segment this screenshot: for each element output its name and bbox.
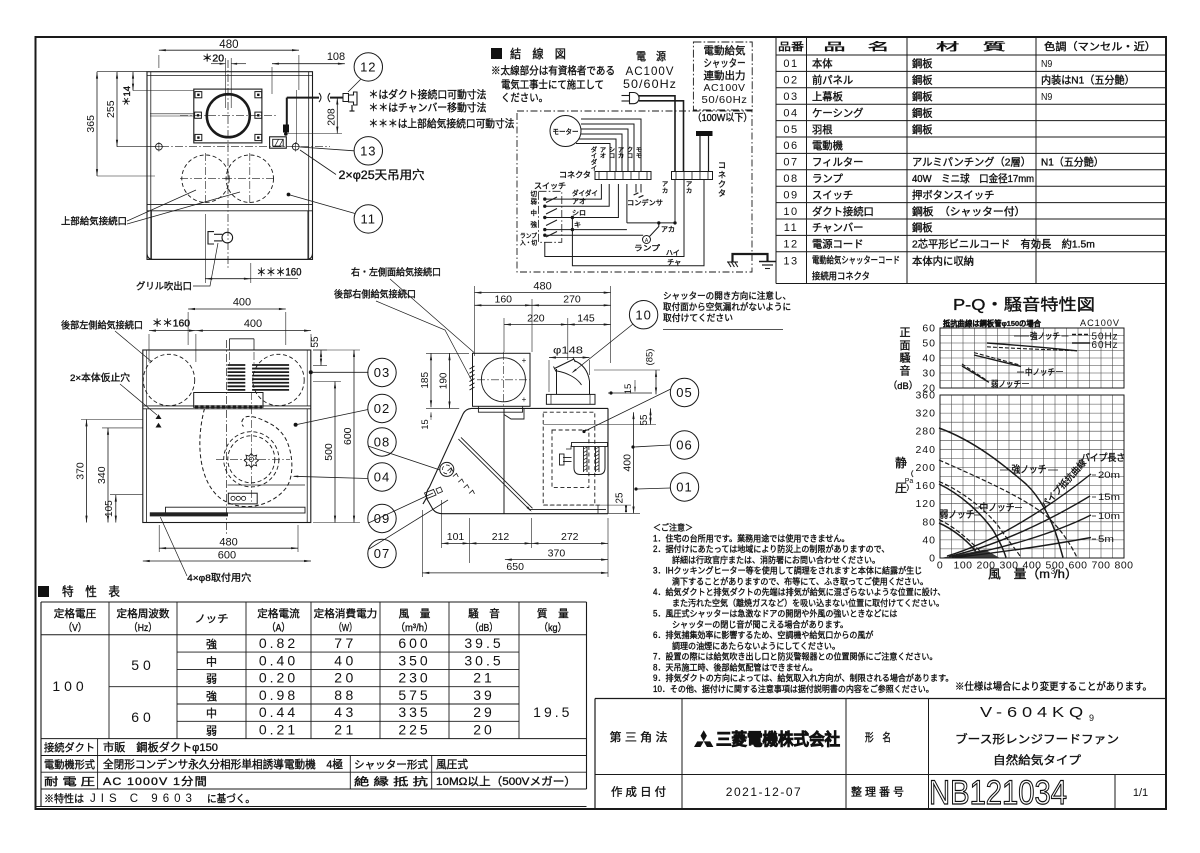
dim 108 [272,63,345,65]
svg-text:(85): (85) [645,349,656,366]
horizontal center line through holes [147,146,330,148]
svg-text:強ノッチ: 強ノッチ [1012,463,1047,476]
svg-text:0.21: 0.21 [259,722,298,738]
svg-text:15m: 15m [1098,492,1120,503]
svg-text:9: 9 [1089,713,1094,723]
side view duct elbow [556,369,558,394]
svg-text:12: 12 [783,239,798,251]
svg-text:N9: N9 [1041,91,1052,103]
svg-text:ください。: ください。 [501,92,548,104]
svg-text:＊＊＊は上部給気接続口可動寸法: ＊＊＊は上部給気接続口可動寸法 [369,117,515,130]
svg-text:272: 272 [561,531,579,543]
front view balloons [368,358,396,386]
side view filter edge (double diagonal) [458,439,530,510]
svg-text:09: 09 [374,511,390,526]
power plug [630,93,640,104]
PQ chart grid [940,395,1124,558]
svg-text:コンデンサ: コンデンサ [627,198,663,207]
svg-text:電動機: 電動機 [812,139,843,152]
svg-text:スイッチ: スイッチ [812,189,853,201]
svg-text:調理の油煙にあたらないようにしてください。: 調理の油煙にあたらないようにしてください。 [672,640,840,651]
svg-text:02: 02 [783,75,798,87]
wire switch row1 daidai [545,184,602,199]
svg-text:＊＊160: ＊＊160 [152,318,190,330]
svg-text:チャ: チャ [667,258,681,266]
wires motor to connector [581,119,641,172]
svg-text:三菱電機株式会社: 三菱電機株式会社 [716,729,840,749]
dim phi148 [548,360,550,392]
svg-text:電源コード: 電源コード [812,238,864,251]
svg-text:700: 700 [1091,560,1110,572]
side view fan housing (dashed) [543,412,595,505]
svg-text:+: + [522,395,527,404]
cord connector 13 [270,137,287,148]
svg-text:質 量: 質 量 [537,607,569,620]
svg-text:AC100V: AC100V [626,64,675,78]
svg-text:1．住宅の台所用です。業務用途では使用できません。: 1．住宅の台所用です。業務用途では使用できません。 [653,532,849,543]
svg-text:中ノッチ: 中ノッチ [980,501,1015,514]
svg-text:05: 05 [783,124,798,136]
svg-text:05: 05 [676,385,692,400]
svg-text:＊14: ＊14 [122,86,133,106]
svg-text:50/60Hz: 50/60Hz [702,94,748,106]
noise curve mid 50Hz [974,353,1019,365]
svg-text:アカ: アカ [661,226,675,234]
shutter output box [693,42,752,110]
svg-text:モ: モ [636,153,642,160]
wire rail hai [545,180,684,257]
svg-text:コ: コ [718,161,726,170]
svg-text:25: 25 [615,492,626,503]
dim 25 [625,505,627,512]
svg-text:強: 強 [206,638,217,651]
svg-text:N1（五分艶）: N1（五分艶） [1041,156,1104,169]
svg-text:370: 370 [75,462,87,480]
svg-text:20: 20 [334,670,357,686]
side view inlet circle [481,358,525,402]
pipe resistance curve 20m [947,474,1091,556]
svg-text:市販 鋼板ダクトφ150: 市販 鋼板ダクトφ150 [103,740,218,754]
svg-text:480: 480 [219,39,238,51]
svg-text:320: 320 [915,408,936,420]
svg-text:コネクタ: コネクタ [559,171,591,180]
svg-text:40: 40 [922,353,936,365]
svg-text:800: 800 [1114,560,1133,572]
svg-text:200: 200 [915,462,936,474]
fan curve weak 50Hz [939,520,987,558]
wire red net horizontal [626,184,628,223]
svg-text:220: 220 [527,312,545,324]
svg-text:N9: N9 [1041,58,1052,70]
fan hub [244,454,258,468]
panel shelf line [228,484,306,486]
svg-text:ランプ: ランプ [520,233,537,240]
pipe resistance curve 15m [949,496,1090,557]
svg-text:（V）: （V） [64,622,87,634]
svg-text:弱ノッチ: 弱ノッチ [991,379,1021,389]
svg-text:0: 0 [929,553,936,565]
front view dim **160 and 400 [148,334,150,362]
switch SW [539,191,562,242]
characteristics table heading [38,586,49,597]
front view dim 370/340/105 left [81,419,143,421]
noise curve strong 50Hz [987,347,1073,351]
wiring diagram heading [491,48,502,59]
balloon 13 [354,137,382,165]
front view center line [226,340,228,535]
side view dims top [474,286,476,356]
svg-text:13: 13 [783,256,798,268]
svg-text:品 名: 品 名 [824,40,890,53]
svg-text:600: 600 [218,550,236,562]
svg-text:絶 縁 抵 抗: 絶 縁 抵 抗 [354,775,429,788]
svg-text:21: 21 [334,722,357,738]
side view chamber hatch [470,366,475,369]
svg-text:600: 600 [342,427,354,445]
upper air inlet knockouts (dashed circles) [182,155,229,202]
bottom strip [166,507,306,513]
svg-text:06: 06 [676,438,692,453]
duct hole (bold circle) [207,94,250,137]
dim 185/190/15 left side view [426,352,469,354]
svg-text:212: 212 [492,531,510,543]
svg-text:上部給気接続口: 上部給気接続口 [61,216,127,228]
svg-text:（100W以下）: （100W以下） [693,112,753,124]
svg-text:3．IHクッキングヒーター等を使用して調理をされますと本体に: 3．IHクッキングヒーター等を使用して調理をされますと本体に結露が生じ [653,565,922,576]
wire switch row4 ki [545,229,627,231]
svg-text:230: 230 [398,670,430,686]
svg-text:タ: タ [718,189,726,198]
noise curve strong 60Hz [987,343,1077,351]
svg-text:30: 30 [922,368,936,380]
svg-text:キ: キ [574,222,581,229]
svg-text:＜ご注意＞: ＜ご注意＞ [653,522,693,533]
characteristics table [41,601,587,603]
svg-text:8．天吊施工時、後部給気配管はできません。: 8．天吊施工時、後部給気配管はできません。 [653,661,817,672]
svg-text:騒: 騒 [900,352,911,365]
svg-text:20m: 20m [1098,470,1120,481]
svg-text:面: 面 [900,340,911,352]
svg-text:滴下することがありますので、布等にて、ふき取ってご使用くださ: 滴下することがありますので、布等にて、ふき取ってご使用ください。 [672,575,928,586]
balloon 06 [670,431,698,459]
svg-text:正: 正 [900,327,911,339]
svg-text:500: 500 [323,443,335,461]
fan curve strong 50Hz [939,460,1077,558]
fan scroll nozzle [194,393,263,408]
svg-text:12: 12 [360,60,376,75]
svg-text:15: 15 [420,419,430,429]
svg-text:（m³/h）: （m³/h） [396,622,434,634]
noise curve weak 50Hz [962,364,987,381]
svg-text:特 性 表: 特 性 表 [62,584,120,599]
front view dim 55 right [313,349,327,351]
motor bracket [574,446,605,475]
svg-text:55: 55 [639,414,650,425]
svg-text:自然給気タイプ: 自然給気タイプ [993,753,1082,767]
capacitor C1 [635,184,637,193]
svg-text:強ノッチ: 強ノッチ [1030,331,1060,341]
svg-text:0.82: 0.82 [259,635,298,651]
top view front panel [147,211,313,260]
svg-text:2×本体仮止穴: 2×本体仮止穴 [70,372,131,384]
balloon 01 [670,473,698,501]
wire switch row2 ao [545,184,609,206]
svg-text:チャンバー: チャンバー [812,222,864,234]
fan curve strong 60Hz [939,428,1063,558]
svg-text:騒 音: 騒 音 [468,607,500,620]
svg-text:105: 105 [104,500,115,517]
svg-text:30.5: 30.5 [464,652,503,668]
svg-text:6．排気捕集効率に影響するため、空調機や給気口からの風が: 6．排気捕集効率に影響するため、空調機や給気口からの風が [653,629,874,640]
svg-text:電動機形式: 電動機形式 [44,758,95,771]
fan center lines [216,458,290,460]
svg-text:11: 11 [784,222,798,234]
svg-text:/h）: /h） [1054,567,1078,581]
svg-text:10m: 10m [1098,511,1120,522]
svg-text:後部左側給気接続口: 後部左側給気接続口 [61,320,143,332]
svg-text:※特性は: ※特性は [44,792,84,805]
svg-text:ロ: ロ [609,153,615,160]
svg-text:内装はN1（五分艶）: 内装はN1（五分艶） [1041,74,1135,87]
duct hole center lines [227,60,229,270]
top view body outline [147,72,313,260]
svg-text:パイプ長さ: パイプ長さ [1081,453,1125,464]
svg-text:風圧式: 風圧式 [436,758,468,771]
front view dim 400 upper [187,312,189,345]
svg-text:19.5: 19.5 [533,704,572,720]
svg-text:形 名: 形 名 [865,730,891,744]
front view inner side walls [146,409,148,523]
front view dim 480 bottom [158,525,160,552]
svg-text:360: 360 [915,390,936,402]
balloon 10 [629,301,657,329]
svg-text:（Hz）: （Hz） [129,622,157,634]
svg-text:650: 650 [506,561,524,573]
svg-text:抵抗曲線は鋼板管φ150の場合: 抵抗曲線は鋼板管φ150の場合 [943,318,1041,328]
svg-text:03: 03 [783,91,798,103]
svg-text:09: 09 [783,189,798,201]
side view panel hatch [448,468,453,472]
front view top duct collar [228,339,230,350]
svg-text:※仕様は場合により変更することがあります。: ※仕様は場合により変更することがあります。 [955,680,1152,693]
dim 400 right side view [633,412,635,513]
svg-text:10: 10 [635,307,651,322]
svg-text:0: 0 [937,560,943,572]
side view bottom dashed line [543,504,602,506]
svg-text:電気工事士にて施工して: 電気工事士にて施工して [501,78,604,91]
svg-text:弱: 弱 [206,673,217,686]
svg-text:60: 60 [922,323,936,335]
svg-text:鋼板: 鋼板 [912,123,933,136]
lamp LA [643,236,651,244]
svg-text:シャッターの閉じ音が聞こえる場合があります。: シャッターの閉じ音が聞こえる場合があります。 [672,618,848,629]
svg-text:品番: 品番 [778,41,805,53]
svg-text:480: 480 [533,281,551,293]
dim 15 right [594,391,652,393]
svg-text:押ボタンスイッチ: 押ボタンスイッチ [912,188,994,201]
svg-text:電動給気シャッターコード: 電動給気シャッターコード [812,255,900,267]
svg-text:40: 40 [922,534,936,546]
svg-text:グリル吹出口: グリル吹出口 [136,281,192,293]
svg-text:＊20: ＊20 [202,54,224,65]
svg-text:ア: ア [686,181,692,188]
svg-text:07: 07 [374,546,390,561]
svg-text:取付面から空気漏れがないように: 取付面から空気漏れがないように [663,301,791,312]
svg-text:100: 100 [52,678,87,694]
svg-text:350: 350 [398,652,430,668]
svg-text:（dB）: （dB） [470,622,498,634]
dim 208 [336,98,338,134]
svg-text:160: 160 [915,480,936,492]
svg-text:255: 255 [105,100,117,118]
svg-text:50: 50 [131,657,155,673]
side view body outline [472,408,609,513]
svg-text:ハイ: ハイ [666,250,680,257]
front view air inlet knockout left (dashed) [143,354,194,405]
connector J2 [672,172,713,180]
svg-text:01: 01 [783,58,798,70]
svg-text:色調（マンセル・近）: 色調（マンセル・近） [1044,40,1156,53]
svg-text:（dB）: （dB） [888,380,918,392]
svg-text:13: 13 [360,143,376,158]
svg-text:詳細は行政官庁または、消防署にお問い合わせください。: 詳細は行政官庁または、消防署にお問い合わせください。 [672,554,880,565]
dim 365/255/*14 left [97,71,147,73]
svg-text:耐 電 圧: 耐 電 圧 [44,775,96,788]
svg-text:電動給気: 電動給気 [704,44,746,57]
svg-text:JIS C 9603: JIS C 9603 [90,793,197,805]
svg-text:φ148: φ148 [553,345,583,357]
svg-text:に基づく。: に基づく。 [207,792,255,805]
svg-text:80: 80 [922,516,936,528]
svg-text:77: 77 [334,635,357,651]
svg-text:575: 575 [398,687,430,703]
duct adapter plate [194,89,262,143]
svg-text:本体内に収納: 本体内に収納 [912,255,974,268]
svg-text:9．排気ダクトの方向によっては、給気取入れ方向が、制限される: 9．排気ダクトの方向によっては、給気取入れ方向が、制限される場合があります。 [653,672,953,683]
svg-text:スイッチ: スイッチ [534,182,566,191]
balloon 12 [354,53,382,81]
svg-text:中: 中 [531,208,538,217]
balloon 05 [670,378,698,406]
svg-text:（W）: （W） [334,622,357,634]
fan curve mid 60Hz [939,484,1006,558]
curve bundle wedge near origin [943,550,999,558]
svg-text:中: 中 [206,655,217,668]
svg-text:225: 225 [398,722,430,738]
svg-text:右・左側面給気接続口: 右・左側面給気接続口 [351,267,441,279]
svg-text:01: 01 [676,480,692,495]
svg-text:21: 21 [473,670,495,686]
svg-text:アオ: アオ [572,198,586,206]
noise curve mid 60Hz [974,355,1021,367]
front view dim 500 right [313,381,341,383]
svg-text:335: 335 [398,704,430,720]
fan curve weak 60Hz [939,523,980,558]
svg-text:鋼板: 鋼板 [912,74,933,87]
svg-text:08: 08 [374,435,390,450]
front view top section divider [143,405,311,407]
wire lamp to red net [650,223,659,237]
svg-text:370: 370 [548,547,566,559]
svg-text:音: 音 [900,363,911,377]
svg-text:取付けてください: 取付けてください [663,313,733,323]
svg-text:AC100V: AC100V [1080,318,1120,329]
svg-text:作 成 日 付: 作 成 日 付 [611,786,666,799]
dim ***160 bottom [204,214,206,283]
svg-text:ダイダイ: ダイダイ [572,189,598,198]
svg-text:5．風圧式シャッターは急激なドアの開閉や外風の強いときなどに: 5．風圧式シャッターは急激なドアの開閉や外風の強いときなどには [653,608,898,619]
svg-text:定格電流: 定格電流 [257,607,300,620]
front view air inlet knockout right (dashed) [253,354,304,405]
svg-text:強: 強 [531,221,538,229]
svg-text:160: 160 [494,293,512,305]
svg-text:365: 365 [85,115,97,133]
svg-text:07: 07 [783,157,798,169]
power cord [287,97,319,99]
svg-text:20: 20 [473,722,495,738]
side view switch knob [425,490,437,499]
svg-text:シャッターの開き方向に注意し、: シャッターの開き方向に注意し、 [663,290,791,301]
svg-text:電 源: 電 源 [636,49,666,63]
svg-text:連動出力: 連動出力 [704,69,746,82]
svg-text:40W ミニ球 口金径17mm: 40W ミニ球 口金径17mm [912,172,1034,185]
svg-text:＊＊＊160: ＊＊＊160 [257,267,302,279]
svg-text:風 量（m: 風 量（m [988,567,1050,581]
power cord to connector (bold twin) [639,96,675,172]
svg-text:88: 88 [334,687,357,703]
svg-text:400: 400 [233,297,251,309]
svg-text:弱: 弱 [206,725,217,738]
svg-text:7．設置の際には給気吹き出し口と防災警報器との位置関係にご注: 7．設置の際には給気吹き出し口と防災警報器との位置関係にご注意ください。 [653,651,937,662]
cord plug [343,94,349,102]
grill outlet cutout [208,232,214,244]
svg-text:材 質: 材 質 [936,40,1006,53]
svg-text:（: （ [907,470,914,478]
svg-text:2芯平形ビニルコード 有効長 約1.5m: 2芯平形ビニルコード 有効長 約1.5m [912,238,1095,251]
svg-text:入・切: 入・切 [520,240,537,247]
svg-text:NB121034: NB121034 [929,774,1067,812]
side view grease channel [530,509,606,511]
svg-text:第 三 角 法: 第 三 角 法 [610,730,668,744]
svg-text:1/1: 1/1 [1133,787,1148,799]
svg-text:11: 11 [361,212,377,227]
svg-text:10MΩ以上（500Vメガー）: 10MΩ以上（500Vメガー） [436,775,576,788]
svg-text:定格消費電力: 定格消費電力 [314,607,378,620]
svg-text:5m: 5m [1098,534,1114,545]
lamp box [228,493,257,504]
svg-text:鋼板: 鋼板 [912,90,933,103]
svg-text:+: + [522,356,527,365]
svg-text:結 線 図: 結 線 図 [510,46,566,61]
front view grill vents [228,364,246,366]
motor shaft [563,457,572,459]
svg-text:カ: カ [618,153,624,160]
svg-text:静: 静 [895,456,907,470]
svg-text:弱: 弱 [531,198,538,206]
svg-text:0.98: 0.98 [259,687,298,703]
svg-text:60Hz: 60Hz [1092,339,1119,351]
output ground circuit (bold) [733,254,768,262]
svg-text:前パネル: 前パネル [812,74,853,87]
svg-text:0.44: 0.44 [259,704,298,720]
svg-text:圧: 圧 [895,481,907,495]
front view dim 600 right [313,349,360,351]
svg-text:50/60Hz: 50/60Hz [623,77,677,91]
svg-text:08: 08 [783,173,798,185]
parts table [775,37,777,284]
svg-text:上幕板: 上幕板 [812,90,843,103]
svg-text:60: 60 [131,709,155,725]
